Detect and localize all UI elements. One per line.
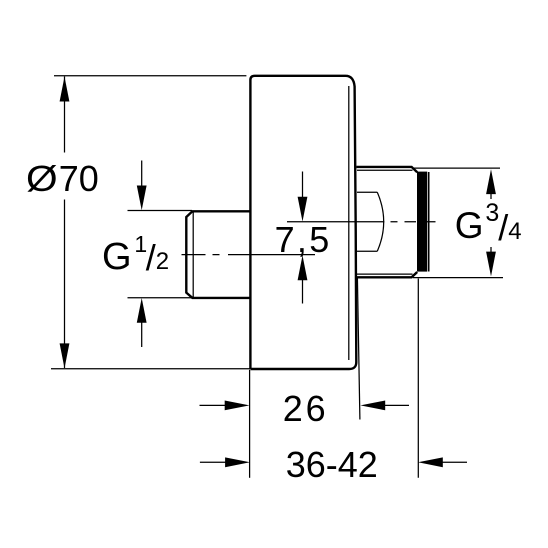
label G 1/2 numerator	[134, 233, 147, 256]
label G 3/4 denominator	[508, 220, 521, 244]
G 1/2 arrow up head	[137, 298, 147, 323]
flange body outline	[250, 76, 356, 369]
label dia 70 digits	[59, 161, 99, 197]
label G 3/4 slash	[498, 210, 508, 246]
G 3/4 arrow down shaft	[490, 247, 492, 253]
G 3/4 arrow up head	[486, 169, 496, 194]
bore top line	[357, 191, 377, 193]
G 1/2 arrow down head	[137, 186, 147, 211]
36-42 dimension right shaft	[442, 461, 467, 463]
G 3/4 bottom extension line	[413, 277, 503, 279]
G 3/4 connector top edge	[357, 167, 418, 172]
G 3/4 arrow up shaft	[490, 194, 492, 199]
label 7,5	[275, 222, 332, 258]
flange front face inner edge	[348, 86, 350, 360]
G 1/2 bottom extension line	[128, 297, 193, 299]
26 arrow right head	[225, 401, 250, 411]
label G 1/2 letter G	[102, 238, 132, 276]
26 arrow left head	[360, 401, 385, 411]
label G 1/2 slash	[146, 240, 156, 276]
G 3/4 top extension line	[413, 167, 500, 169]
dia70 dimension line upper	[64, 77, 66, 153]
G 3/4 connector top thread root line	[357, 169, 413, 171]
7,5 arrow up head	[298, 255, 308, 280]
label 26	[283, 391, 329, 427]
G 3/4 connector bottom edge	[357, 272, 418, 277]
G 1/2 centerline	[182, 254, 316, 256]
G 1/2 arrow up shaft	[141, 320, 143, 347]
G 1/2 arrow down shaft	[141, 161, 143, 189]
G 1/2 connector body	[186, 211, 249, 298]
label G 3/4 numerator	[485, 201, 499, 226]
G 3/4 connector bottom thread root line	[357, 273, 413, 275]
36-42 arrow left head	[418, 457, 443, 467]
7,5 arrow down shaft	[302, 172, 304, 200]
bore curve	[377, 192, 383, 251]
26 extension line	[357, 278, 360, 420]
G 3/4 arrow down head	[486, 252, 496, 277]
G 3/4 centerline	[287, 221, 436, 223]
36-42 arrow right head	[225, 457, 250, 467]
bore bottom line	[357, 250, 377, 252]
36-42 right extension line	[417, 279, 419, 478]
seal black band	[417, 172, 427, 272]
dia70 bottom extension line	[51, 368, 250, 370]
36-42 left extension line (wall)	[249, 370, 251, 478]
36-42 dimension left shaft	[200, 461, 227, 463]
dia70 arrow down	[60, 343, 70, 368]
26 dimension right shaft	[384, 404, 409, 406]
dia70 top extension line	[54, 75, 246, 77]
label G 3/4 letter G	[455, 207, 484, 244]
connector right end face line	[428, 172, 430, 272]
7,5 arrow up shaft	[302, 278, 304, 304]
dia70 dimension line lower	[64, 200, 66, 369]
label G 1/2 denominator	[156, 250, 169, 274]
26 dimension left shaft	[200, 404, 227, 406]
label 36-42	[286, 447, 378, 483]
dia70 arrow up	[60, 77, 70, 102]
label dia 70 symbol	[26, 161, 58, 197]
7,5 arrow down head	[298, 197, 308, 222]
G 1/2 connector chamfer inner line	[192, 212, 194, 298]
G 1/2 top extension line	[128, 210, 193, 212]
